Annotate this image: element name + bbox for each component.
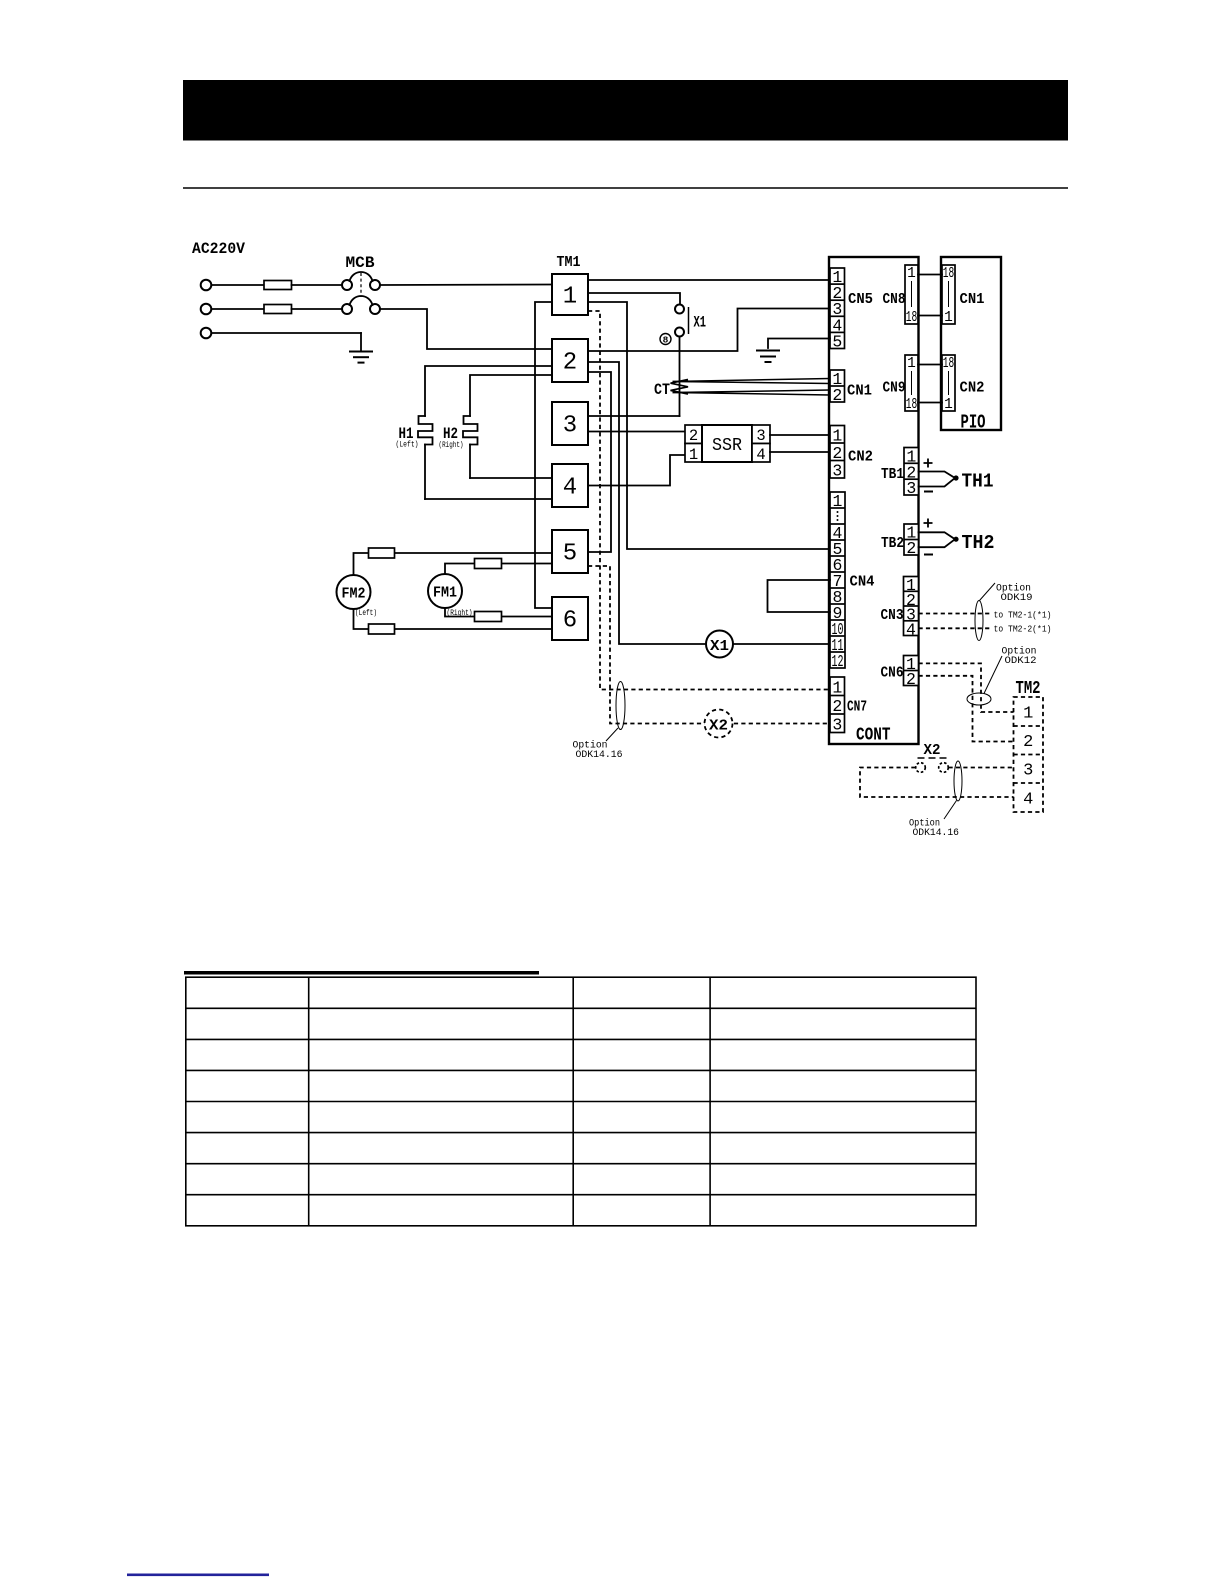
svg-text:CN7: CN7 — [847, 699, 867, 716]
svg-text:FM2: FM2 — [342, 586, 366, 603]
svg-text:CN8: CN8 — [883, 291, 906, 308]
svg-text:1: 1 — [944, 397, 953, 413]
svg-text:3: 3 — [563, 413, 577, 440]
svg-text:MCB: MCB — [346, 254, 375, 272]
svg-text:(Left): (Left) — [396, 441, 419, 450]
svg-text:1: 1 — [832, 679, 842, 698]
svg-text:2: 2 — [906, 670, 916, 689]
svg-text:X1: X1 — [710, 638, 729, 655]
svg-text:TB2: TB2 — [881, 535, 904, 552]
svg-text:X1: X1 — [694, 314, 707, 332]
svg-text:(Right): (Right) — [447, 609, 473, 618]
svg-text:CN6: CN6 — [881, 665, 904, 682]
svg-text:4: 4 — [563, 475, 577, 502]
svg-text:ODK12: ODK12 — [1005, 656, 1037, 667]
svg-text:CN4: CN4 — [850, 574, 875, 591]
svg-text:1: 1 — [944, 310, 953, 326]
svg-text:18: 18 — [943, 356, 955, 372]
svg-text:3: 3 — [1023, 762, 1033, 781]
svg-text:SSR: SSR — [712, 436, 742, 456]
svg-text:ODK14.16: ODK14.16 — [913, 828, 960, 839]
svg-text:12: 12 — [832, 652, 844, 671]
svg-text:18: 18 — [943, 266, 955, 282]
svg-text:1: 1 — [833, 492, 843, 511]
svg-text:3: 3 — [832, 716, 842, 735]
svg-text:ODK19: ODK19 — [1001, 593, 1033, 604]
svg-text:1: 1 — [907, 266, 916, 282]
svg-text:1: 1 — [689, 446, 698, 464]
svg-text:1: 1 — [907, 356, 916, 372]
svg-text:3: 3 — [906, 479, 916, 498]
svg-text:2: 2 — [563, 350, 577, 377]
svg-text:4: 4 — [906, 620, 916, 639]
svg-text:TM1: TM1 — [557, 254, 581, 271]
svg-text:to TM2-1(*1): to TM2-1(*1) — [994, 610, 1052, 621]
svg-text:2: 2 — [832, 386, 842, 405]
svg-text:AC220V: AC220V — [192, 240, 245, 258]
svg-text:5: 5 — [832, 332, 842, 351]
svg-text:CN9: CN9 — [883, 380, 906, 397]
svg-text:8: 8 — [663, 335, 669, 346]
svg-text:FM1: FM1 — [433, 585, 457, 602]
svg-text:6: 6 — [563, 608, 577, 635]
svg-text:to TM2-2(*1): to TM2-2(*1) — [994, 624, 1052, 635]
svg-text:3: 3 — [756, 427, 765, 445]
svg-text:X2: X2 — [709, 718, 728, 735]
svg-text:(Right): (Right) — [439, 441, 464, 450]
svg-text:TB1: TB1 — [881, 466, 904, 483]
svg-text:2: 2 — [906, 539, 916, 558]
svg-text:1: 1 — [563, 284, 577, 311]
svg-text:CN2: CN2 — [848, 449, 873, 466]
svg-text:5: 5 — [563, 541, 577, 568]
svg-text:4: 4 — [1023, 791, 1033, 810]
svg-text:CN1: CN1 — [847, 383, 872, 400]
svg-text:CN3: CN3 — [881, 607, 904, 624]
svg-text:ODK14.16: ODK14.16 — [576, 750, 623, 761]
svg-text:1: 1 — [832, 427, 842, 446]
svg-text:3: 3 — [832, 462, 842, 481]
svg-text:TH2: TH2 — [962, 532, 995, 554]
svg-text:18: 18 — [906, 397, 918, 413]
svg-text:18: 18 — [906, 310, 918, 326]
svg-text:2: 2 — [689, 427, 698, 445]
svg-text:1: 1 — [1023, 705, 1033, 724]
svg-text:2: 2 — [832, 697, 842, 716]
svg-text:CN1: CN1 — [960, 291, 985, 308]
svg-text:2: 2 — [1023, 733, 1033, 752]
svg-text:2: 2 — [832, 444, 842, 463]
svg-text:X2: X2 — [924, 742, 941, 759]
svg-text:CONT: CONT — [856, 726, 891, 746]
svg-text:CT: CT — [654, 381, 670, 399]
svg-text:PIO: PIO — [961, 412, 986, 434]
svg-text:TM2: TM2 — [1016, 679, 1041, 699]
svg-text:TH1: TH1 — [962, 471, 994, 493]
svg-text:CN5: CN5 — [848, 291, 873, 308]
svg-text:CN2: CN2 — [960, 380, 985, 397]
svg-text:4: 4 — [756, 446, 765, 464]
svg-text:(Left): (Left) — [355, 609, 377, 618]
